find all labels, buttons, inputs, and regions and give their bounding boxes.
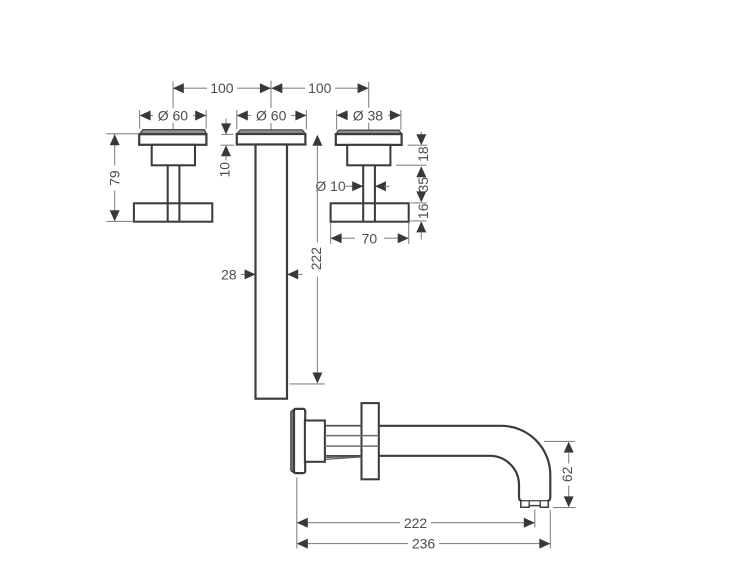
chain bottom up arrow bbox=[416, 221, 426, 232]
dim 10 ext lines bbox=[221, 133, 233, 135]
supply pipe line B bbox=[325, 435, 379, 437]
pipe slant line lower bbox=[325, 457, 361, 460]
wall rosette gray edge bbox=[291, 409, 294, 473]
svg-text:Ø 10: Ø 10 bbox=[315, 178, 346, 194]
svg-text:10: 10 bbox=[216, 162, 232, 178]
dia38 ext lines right handle bbox=[336, 110, 338, 130]
dimension dia38 line bbox=[337, 114, 401, 116]
svg-text:Ø 60: Ø 60 bbox=[158, 108, 189, 124]
centerline extension right handle bbox=[368, 82, 370, 130]
svg-text:Ø 38: Ø 38 bbox=[353, 107, 384, 123]
left ext line bottom dims bbox=[296, 478, 298, 549]
chain ext line cross top bbox=[411, 202, 427, 204]
svg-text:16: 16 bbox=[415, 203, 431, 219]
right handle stem bbox=[362, 165, 364, 221]
chain ext line cross bottom bbox=[411, 220, 427, 222]
dim 79 bottom ext line bbox=[106, 220, 133, 222]
arrow pair center bbox=[260, 83, 271, 93]
supply pipe line C bbox=[325, 445, 379, 447]
dimension 62 line bbox=[564, 442, 574, 453]
right handle cross bar bbox=[331, 203, 409, 221]
pipe slant line upper bbox=[325, 456, 361, 457]
dim 28 left arrow bbox=[241, 273, 246, 275]
dimension 100 left segment bbox=[173, 87, 271, 89]
svg-text:222: 222 bbox=[404, 515, 428, 531]
right handle rosette bbox=[336, 134, 402, 145]
pipe top line bbox=[325, 425, 362, 427]
spout outline bbox=[379, 426, 551, 501]
arrow 100 far left bbox=[173, 83, 184, 93]
left handle rosette bbox=[139, 134, 206, 145]
left handle rosette top strip bbox=[139, 130, 206, 135]
dimension 79 line bbox=[114, 134, 116, 165]
dimension 222 top drawing bbox=[312, 135, 322, 146]
wall plate bbox=[362, 403, 379, 479]
dia60 ext lines middle bbox=[236, 110, 238, 129]
aerator divider right bbox=[539, 501, 541, 505]
right handle rosette top strip bbox=[336, 130, 402, 134]
svg-text:35: 35 bbox=[415, 177, 431, 193]
dim 222 bottom ext line bbox=[289, 383, 324, 385]
svg-text:100: 100 bbox=[308, 80, 332, 96]
left handle stem bbox=[167, 165, 169, 221]
dia10 right arrow bbox=[375, 181, 386, 191]
svg-text:79: 79 bbox=[106, 170, 122, 186]
centerline extension middle column bbox=[270, 81, 272, 130]
dim 10 lower arrow bbox=[221, 145, 231, 156]
centerline extension left handle bbox=[172, 82, 174, 130]
right dim chain down arrow 18 bbox=[420, 132, 422, 135]
label 100 right background bbox=[305, 81, 335, 96]
dimension 222 bottom line bbox=[297, 522, 535, 524]
dimension 70 line bbox=[331, 237, 409, 239]
chain ext line rosette bottom bbox=[408, 144, 428, 146]
dia60 ext lines left handle bbox=[139, 110, 141, 129]
left handle cross bar bbox=[134, 203, 212, 221]
dimension 100 right segment bbox=[271, 87, 369, 89]
dim 62 top ext line bbox=[544, 440, 575, 442]
dia10 left arrow bbox=[344, 185, 354, 187]
left handle body bbox=[152, 145, 195, 166]
right ext line 236 bbox=[549, 510, 551, 549]
svg-text:100: 100 bbox=[210, 80, 234, 96]
pipe bottom line bbox=[325, 455, 362, 457]
chain down arrow 35 bbox=[416, 191, 426, 202]
aerator outline bbox=[521, 501, 549, 507]
label 100 left background bbox=[207, 81, 237, 96]
chain up arrow 35 bbox=[416, 166, 426, 177]
svg-text:62: 62 bbox=[559, 466, 575, 482]
svg-text:28: 28 bbox=[221, 267, 237, 283]
middle column bbox=[256, 145, 288, 399]
middle rosette top strip bbox=[237, 130, 306, 134]
right ext line 222 bottom bbox=[534, 510, 536, 528]
dimension dia60 left line bbox=[140, 115, 207, 117]
svg-text:18: 18 bbox=[415, 146, 431, 162]
dim 28 right arrow bbox=[287, 269, 298, 279]
dimension dia60 middle line bbox=[237, 115, 307, 117]
svg-text:222: 222 bbox=[308, 247, 324, 271]
dim 79 top ext line bbox=[106, 133, 139, 135]
wall rosette side view bbox=[294, 409, 305, 473]
dim 62 bottom ext line bbox=[553, 507, 576, 509]
chain ext line body bottom bbox=[396, 164, 427, 166]
svg-text:70: 70 bbox=[362, 231, 378, 247]
aerator divider left bbox=[528, 501, 530, 505]
right handle body bbox=[347, 145, 390, 165]
cartridge housing bbox=[305, 421, 325, 462]
svg-text:236: 236 bbox=[412, 536, 436, 552]
svg-text:Ø 60: Ø 60 bbox=[256, 108, 287, 124]
dim 10 middle upper arrow bbox=[225, 119, 227, 125]
middle rosette bbox=[237, 134, 306, 145]
dimension 236 line bbox=[297, 543, 551, 545]
dim 70 ext lines bbox=[330, 223, 332, 244]
arrow 100 far right bbox=[358, 83, 369, 93]
